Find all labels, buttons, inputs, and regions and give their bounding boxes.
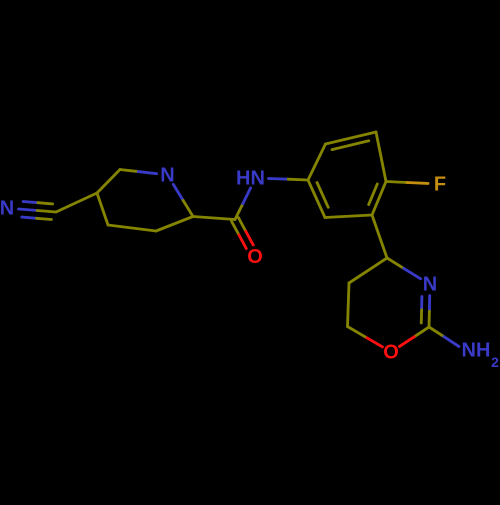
svg-text:N: N	[160, 165, 174, 187]
phenyl C2-C3	[326, 132, 377, 144]
phenyl aromatic inner line C4=C5	[369, 184, 378, 205]
nitrile N label bond: triple bond	[23, 202, 38, 203]
svg-text:O: O	[247, 246, 263, 268]
carbonyl C=O double bond	[238, 218, 245, 232]
phenyl C5-C6	[325, 215, 372, 218]
svg-text:N: N	[423, 273, 437, 295]
phenyl C6-C1	[308, 180, 325, 218]
phenyl C1-C2	[308, 144, 326, 180]
svg-text:HN: HN	[236, 168, 265, 190]
piperidine C4-C5	[97, 193, 108, 225]
oxazine C4-N3	[387, 258, 404, 268]
svg-text:F: F	[434, 174, 446, 196]
piperidine C2-C3	[156, 217, 193, 232]
piperidine N1-C2	[173, 184, 183, 200]
phenyl C4-C5	[372, 182, 386, 216]
oxazine C6-C5	[348, 283, 350, 327]
bond C2-carbonyl C	[193, 217, 235, 220]
oxazine C5-C4	[349, 258, 387, 283]
piperidine C6-N1	[120, 170, 138, 172]
bond oxazine C2 - amino N	[429, 327, 444, 337]
phenyl aromatic inner line C2=C3	[332, 141, 369, 150]
bond carbonyl C - amide N	[235, 204, 243, 220]
bond phenyl C5 - oxazine C4	[372, 215, 387, 258]
svg-text:2: 2	[491, 354, 499, 370]
oxazine C2-O1	[414, 327, 429, 337]
oxazine O1-C6	[365, 337, 383, 347]
bond nitrile C - ring C5	[56, 193, 97, 212]
bond phenyl C4 - F	[386, 182, 407, 183]
svg-text:N: N	[0, 198, 14, 220]
oxazine N3=C2 double bond	[428, 296, 431, 312]
svg-text:NH: NH	[462, 340, 491, 362]
piperidine C3-C4	[108, 225, 156, 231]
phenyl aromatic inner line C6=C1	[317, 183, 328, 208]
svg-text:O: O	[383, 342, 399, 364]
piperidine C5-C6	[97, 170, 120, 194]
phenyl C3-C4	[376, 132, 386, 182]
bond amide N - phenyl C1	[269, 177, 289, 181]
